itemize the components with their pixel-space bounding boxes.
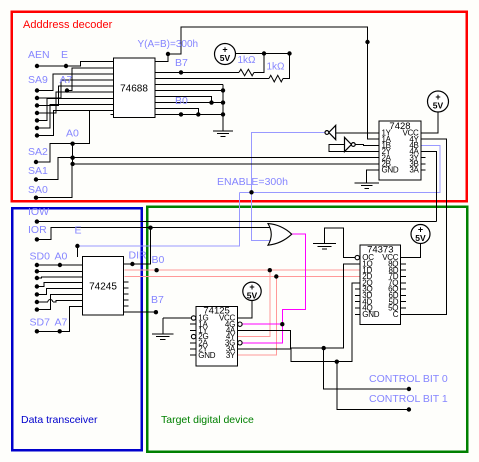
- svg-text:E: E: [61, 49, 68, 61]
- svg-text:5V: 5V: [433, 101, 444, 111]
- svg-text:SA2: SA2: [28, 146, 48, 158]
- svg-text:5V: 5V: [247, 290, 258, 300]
- svg-text:E: E: [75, 225, 82, 237]
- svg-text:Adddress decoder: Adddress decoder: [23, 19, 113, 31]
- svg-text:A0: A0: [66, 128, 79, 140]
- svg-text:SA9: SA9: [28, 74, 48, 86]
- svg-text:IOW: IOW: [28, 206, 49, 218]
- svg-text:A7: A7: [55, 317, 68, 329]
- svg-text:GND: GND: [198, 351, 215, 360]
- svg-text:IOR: IOR: [28, 224, 47, 236]
- svg-text:1kΩ: 1kΩ: [267, 62, 286, 73]
- svg-text:A0: A0: [55, 251, 68, 263]
- svg-text:GND: GND: [382, 166, 399, 175]
- svg-text:A7: A7: [60, 74, 73, 86]
- svg-text:B0: B0: [152, 254, 165, 266]
- svg-text:74245: 74245: [89, 282, 117, 293]
- svg-text:SD0: SD0: [30, 251, 51, 263]
- svg-text:GND: GND: [362, 310, 379, 319]
- svg-text:B0: B0: [175, 95, 188, 107]
- svg-text:DIR: DIR: [129, 250, 148, 262]
- svg-text:Y(A=B)=300h: Y(A=B)=300h: [138, 39, 199, 50]
- svg-text:B7: B7: [151, 294, 164, 306]
- svg-text:SA0: SA0: [28, 184, 48, 196]
- svg-text:CONTROL BIT 1: CONTROL BIT 1: [369, 393, 448, 405]
- svg-text:B7: B7: [175, 57, 188, 69]
- svg-text:Target digital device: Target digital device: [161, 414, 254, 426]
- svg-text:5V: 5V: [415, 233, 426, 243]
- svg-text:74688: 74688: [120, 84, 148, 95]
- svg-text:ENABLE=300h: ENABLE=300h: [217, 176, 288, 188]
- svg-text:CONTROL BIT 0: CONTROL BIT 0: [369, 373, 448, 385]
- svg-text:SD7: SD7: [30, 317, 51, 329]
- svg-text:1kΩ: 1kΩ: [238, 55, 257, 66]
- svg-text:C: C: [393, 310, 399, 319]
- svg-text:3A: 3A: [409, 166, 419, 175]
- svg-text:AEN: AEN: [28, 49, 50, 61]
- svg-text:5V: 5V: [220, 53, 231, 63]
- svg-text:Data transceiver: Data transceiver: [21, 414, 98, 426]
- svg-text:3Y: 3Y: [226, 351, 236, 360]
- svg-text:SA1: SA1: [28, 165, 48, 177]
